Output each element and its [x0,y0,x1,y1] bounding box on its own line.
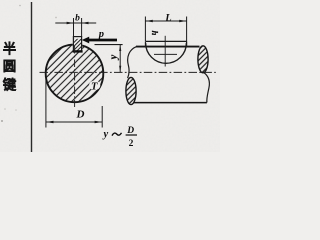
svg-text:p: p [98,29,104,40]
horizontal centerline (shared axis) [40,71,216,73]
table border vertical line [31,2,33,152]
label T inside circle [89,81,100,91]
svg-text:b: b [75,13,80,23]
left break curve of shaft [128,47,137,79]
caption text 半圆键 (vertical) [2,41,17,93]
shaft-top reference line for y [95,44,123,46]
shaft top edge [136,46,200,48]
shaft circle (end view) with hatching [46,45,104,103]
key top edge [145,40,186,42]
svg-text:y: y [102,129,109,140]
svg-text:2: 2 [129,139,134,149]
svg-text:圆: 圆 [3,59,17,74]
left broken-section ellipse (hatched) [126,77,136,104]
svg-text:D: D [76,109,85,121]
dimension y (vertical) [119,45,121,73]
svg-text:L: L [164,13,171,24]
shaft bottom edge [134,102,207,104]
paper background [0,0,220,152]
faint scan speckles [19,5,21,7]
svg-text:h: h [150,31,160,36]
keyseat slot white-out [73,36,82,52]
right broken-section ellipse (hatched) [198,46,208,73]
key (end view) hatched rectangle [73,37,81,52]
force P thick arrow [88,39,117,42]
svg-text:半: 半 [3,41,17,57]
dimension b [55,18,96,37]
vertical centerline of circle [74,46,76,107]
key semicircular bottom arc [146,43,187,63]
key centerlines (crosshair) [164,36,166,67]
key side edges [144,41,146,47]
dimension D [46,79,102,128]
svg-text:y: y [109,54,120,60]
keyseat bottom thick line [73,50,83,52]
svg-text:T: T [91,82,98,93]
right break curve of shaft [204,72,210,102]
svg-text:键: 键 [2,77,17,93]
dimension L [145,17,186,47]
